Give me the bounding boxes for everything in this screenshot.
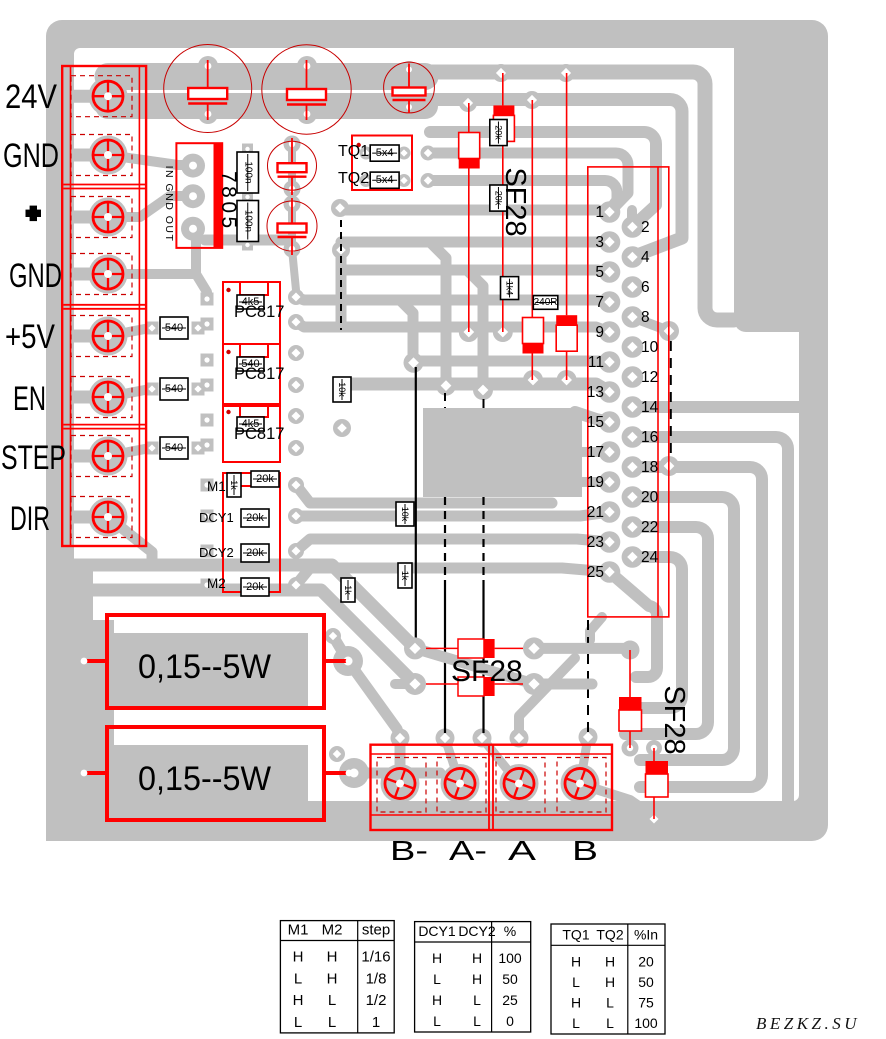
label PC817 #1: [234, 303, 284, 321]
capacitor C1: [164, 45, 252, 133]
capacitor C2 pads: [297, 56, 317, 124]
svg-text:100: 100: [634, 1015, 658, 1031]
wire gnd screw to regulator: [108, 155, 193, 165]
resistor R02 0,15 5W: [81, 727, 353, 820]
svg-text:PC817: PC817: [234, 365, 284, 383]
wire resistor R01 pad to screw B-: [333, 636, 400, 783]
resistor 540 #1: [160, 317, 188, 339]
wire pin24 loop: [630, 557, 682, 708]
wire chip to pin17: [582, 447, 610, 457]
label GND: [3, 137, 59, 175]
jumper wire x445: [444, 393, 446, 733]
svg-text:18: 18: [641, 459, 658, 476]
svg-text:23: 23: [587, 534, 604, 551]
svg-text:1: 1: [372, 1014, 380, 1031]
label B bottom: [572, 835, 598, 866]
svg-text:H: H: [571, 953, 581, 969]
label TQ2: [338, 170, 369, 187]
capacitor C3 pads: [401, 61, 418, 116]
svg-text:SF28: SF28: [451, 655, 523, 688]
resistor 20k DCY1: [241, 509, 269, 527]
capacitor C6 100n: [237, 152, 259, 193]
ground plane frame: [46, 20, 828, 841]
svg-text:H: H: [432, 992, 442, 1008]
diode D1 SF28: [459, 103, 480, 332]
wire pin18b to jumper pad: [632, 466, 669, 467]
svg-text:H: H: [293, 992, 304, 1009]
svg-text:step: step: [362, 922, 390, 939]
wire run under chip y516 to pin21: [296, 512, 610, 516]
svg-text:DCY2: DCY2: [458, 923, 496, 939]
resistor 240R: [533, 296, 558, 310]
wire plus screw to regulator mid: [108, 196, 193, 217]
svg-text:GND: GND: [3, 137, 59, 175]
wire chip to pin15: [575, 412, 610, 422]
wire cap C4 leads: [288, 144, 296, 189]
svg-text:TQ1: TQ1: [338, 143, 369, 160]
capacitor C7 100n: [237, 201, 259, 242]
label PC817 #3: [234, 425, 284, 443]
resistor 20k b: [490, 185, 507, 211]
table M1 M2 step: [280, 921, 394, 1033]
label B- bottom: [390, 835, 428, 866]
wire pin2 stub up: [627, 210, 637, 227]
svg-text:DCY2: DCY2: [199, 545, 234, 560]
wire run R2 y99: [420, 100, 682, 258]
table DCY: [415, 922, 531, 1032]
svg-text:IN GND OUT: IN GND OUT: [163, 166, 175, 243]
op-amp optocoupler U5 PC817: [223, 404, 280, 462]
wire run under chip y503: [296, 485, 552, 503]
jumper TQ pads: [360, 146, 436, 189]
wire inner loop pin25 to D6: [610, 572, 658, 677]
resistor R1-R3 pads: [146, 322, 205, 455]
svg-text:100: 100: [498, 950, 522, 966]
diode pair pads: [404, 637, 545, 695]
svg-text:9: 9: [595, 324, 604, 341]
capacitor C1 pads: [198, 56, 218, 124]
svg-text:75: 75: [638, 994, 654, 1010]
label TQ1: [338, 143, 369, 160]
svg-text:H: H: [472, 971, 482, 987]
svg-text:L: L: [328, 1014, 336, 1031]
wire cap C2 leads: [303, 66, 311, 114]
jumper block TQ1 TQ2: [352, 136, 412, 191]
terminal block X2: [371, 745, 613, 830]
resistor 20k DCY2: [241, 544, 269, 562]
capacitor C4 pads: [284, 136, 301, 198]
wire jumper pad to screw A: [482, 738, 519, 784]
header block M1/DCY/M2: [223, 473, 280, 592]
wire pin14 to plane: [632, 401, 799, 413]
wire run R4 y180 corner: [428, 181, 617, 211]
wire chip to pin19: [582, 477, 610, 487]
wire cap C1 leads: [204, 66, 212, 114]
svg-text:H: H: [293, 949, 304, 966]
svg-text:H: H: [571, 994, 581, 1010]
svg-text:21: 21: [587, 504, 604, 521]
svg-text:H: H: [605, 953, 615, 969]
svg-text:L: L: [606, 994, 614, 1010]
wire run to pin1: [340, 210, 610, 212]
terminal screw A: [496, 758, 545, 813]
label EN: [13, 380, 46, 418]
connector J2 outline: [588, 167, 669, 617]
capacitor C5 pads: [284, 196, 301, 258]
svg-text:17: 17: [587, 444, 604, 461]
svg-text:M1: M1: [207, 479, 226, 494]
regulator U1 pads: [181, 154, 205, 241]
label PC817 #2: [234, 365, 284, 383]
svg-text:PC817: PC817: [234, 303, 284, 321]
svg-text:L: L: [328, 992, 336, 1009]
wire run to pin5: [341, 242, 610, 385]
wire DIR screw down to bottom bundle: [108, 517, 152, 565]
wire vertical x341: [336, 250, 347, 324]
svg-text:7: 7: [595, 294, 604, 311]
diode D5 D6 pads: [621, 641, 663, 828]
terminal screw 24V: [71, 76, 132, 117]
svg-text:16: 16: [641, 429, 658, 446]
terminal screw GND: [71, 135, 132, 176]
IC driver copper pad area U2: [423, 408, 582, 497]
svg-text:DCY1: DCY1: [418, 923, 456, 939]
svg-text:5: 5: [595, 264, 604, 281]
wire run to pin3: [341, 237, 610, 248]
jumper wire x341: [340, 220, 342, 330]
wire pin16 loop: [632, 437, 788, 801]
terminal screw STEP: [71, 436, 132, 477]
ground pour bottom left: [46, 560, 114, 841]
wire cap C5 leads: [292, 204, 296, 290]
wire screws to band stubs: [66, 96, 108, 517]
svg-text:22: 22: [641, 519, 658, 536]
connector J2 pin numbers: [587, 204, 659, 581]
jumper wire x588: [587, 620, 589, 733]
svg-text:L: L: [572, 974, 580, 990]
capacitor C4: [268, 138, 317, 195]
wire run R3 y153 corner: [428, 153, 628, 212]
wire +5V screw to R1: [108, 328, 150, 336]
jumper wire x483: [483, 399, 485, 733]
diode D5 SF28: [426, 639, 523, 658]
svg-text:DIR: DIR: [10, 500, 50, 538]
resistor 540 #2: [160, 378, 188, 400]
svg-text:1: 1: [595, 204, 604, 221]
svg-text:14: 14: [641, 399, 659, 416]
svg-text:%In: %In: [634, 926, 658, 942]
svg-text:%: %: [504, 923, 516, 939]
op-amp optocoupler U4 PC817: [223, 344, 280, 406]
resistor 20k M1: [251, 471, 279, 487]
svg-text:DCY1: DCY1: [199, 510, 234, 525]
terminal screw GND: [71, 254, 132, 295]
resistor 20k M2: [241, 578, 269, 596]
svg-text:L: L: [433, 1013, 441, 1029]
M block pads: [201, 477, 305, 593]
diode D4 SF28: [556, 73, 577, 380]
terminal screw A-: [437, 758, 486, 813]
capacitor C5: [267, 198, 317, 255]
wire 24V rail top: [108, 77, 425, 107]
resistor 4k5 in U5: [237, 417, 264, 431]
diode D3 SF28: [523, 100, 544, 380]
wire run under chip y568 to pin25: [296, 568, 610, 585]
svg-text:+5V: +5V: [5, 318, 55, 356]
svg-text:L: L: [606, 1015, 614, 1031]
label SF28 bottom right: [658, 685, 690, 754]
jumper TQ1: [370, 145, 399, 161]
resistor 1k4: [501, 277, 519, 300]
label A bottom: [508, 835, 536, 866]
label M1: [207, 479, 226, 494]
svg-text:L: L: [294, 1014, 302, 1031]
resistor box a: [333, 377, 351, 402]
wire pin8 to jumper pad: [632, 317, 669, 331]
op-amp optocoupler U3 PC817: [223, 282, 280, 344]
resistor box d: [398, 563, 412, 588]
label DIR: [10, 500, 50, 538]
node x341 pads: [331, 199, 351, 437]
label 24V: [5, 78, 57, 116]
svg-text:A: A: [508, 835, 536, 866]
wire S curve pin area to screw A pad: [519, 658, 575, 738]
svg-text:3: 3: [595, 234, 604, 251]
diode D2 SF28: [493, 73, 514, 332]
wire run under chip y539 to pin23: [296, 539, 610, 551]
svg-text:4: 4: [641, 249, 650, 266]
diode D6 SF28: [619, 650, 642, 748]
svg-text:TQ1: TQ1: [562, 926, 589, 942]
svg-text:10: 10: [641, 339, 659, 356]
wire run to pin13: [345, 384, 610, 392]
svg-text:B: B: [572, 835, 598, 866]
resistor 4k5 in U3: [237, 295, 264, 309]
regulator U1 7805: [163, 143, 240, 248]
svg-text:50: 50: [638, 974, 654, 990]
resistor R01 0,15 5W: [81, 615, 353, 708]
svg-text:50: 50: [502, 971, 518, 987]
svg-text:TQ2: TQ2: [596, 926, 623, 942]
svg-text:L: L: [294, 970, 302, 987]
svg-text:L: L: [572, 1015, 580, 1031]
svg-text:H: H: [327, 970, 338, 987]
label DCY2: [199, 545, 234, 560]
svg-text:M2: M2: [207, 576, 226, 591]
svg-text:TQ2: TQ2: [338, 170, 369, 187]
svg-text:L: L: [473, 1013, 481, 1029]
svg-text:20: 20: [641, 489, 659, 506]
label SF28 top: [499, 167, 531, 236]
terminal block X1: [62, 66, 146, 546]
wire run y132: [430, 132, 656, 227]
wire run to pin7: [296, 270, 610, 390]
optocoupler U3 pads: [201, 289, 305, 331]
svg-text:1/2: 1/2: [366, 992, 387, 1009]
wire EN screw to R2: [108, 389, 150, 397]
svg-text:0: 0: [506, 1013, 514, 1029]
resistor 20k a: [490, 120, 507, 146]
svg-text:EN: EN: [13, 380, 46, 418]
wire jumper pad to screw A-: [445, 738, 460, 784]
svg-text:M2: M2: [322, 922, 343, 939]
wire resistor R02 pad to A-: [354, 768, 440, 779]
label +5V: [5, 318, 55, 356]
svg-text:15: 15: [587, 414, 604, 431]
svg-text:24: 24: [641, 549, 659, 566]
svg-text:SF28: SF28: [499, 167, 531, 236]
svg-text:L: L: [473, 992, 481, 1008]
wire cap C3 leads: [405, 69, 413, 107]
resistor 1k M1: [227, 473, 241, 497]
svg-text:STEP: STEP: [1, 439, 66, 477]
wire pin18 loop: [632, 467, 762, 787]
ground pour right band: [734, 48, 799, 332]
resistor box c: [341, 578, 355, 602]
wire left bottom bundle: [60, 565, 415, 684]
label +: [26, 206, 42, 222]
table TQ: [551, 924, 665, 1034]
svg-text:1/16: 1/16: [361, 949, 390, 966]
svg-text:GND: GND: [9, 257, 62, 295]
svg-text:H: H: [472, 950, 482, 966]
jumper TQ2: [370, 172, 399, 188]
connector J2 pins: [599, 201, 644, 583]
svg-text:BEZKZ.SU: BEZKZ.SU: [756, 1014, 860, 1033]
watermark BEZKZ.SU: [756, 1014, 860, 1033]
bottom row pads: [391, 728, 598, 748]
jumper wire x669: [670, 341, 672, 456]
svg-text:A-: A-: [449, 835, 487, 866]
svg-text:0,15--5W: 0,15--5W: [138, 648, 271, 686]
wire run R1 y72: [420, 72, 734, 320]
svg-text:B-: B-: [390, 835, 428, 866]
terminal screw +: [71, 197, 132, 238]
terminal screw B-: [377, 758, 426, 813]
svg-text:PC817: PC817: [234, 425, 284, 443]
wire pin20 loop: [632, 497, 734, 760]
resistor box b: [396, 502, 414, 526]
svg-text:11: 11: [588, 354, 604, 371]
diode pads mid: [459, 64, 575, 112]
jumper wire pads right: [659, 321, 679, 476]
terminal screw EN: [71, 377, 132, 418]
power resistor right pads: [325, 628, 369, 788]
svg-text:L: L: [433, 971, 441, 987]
terminal screw +5V: [71, 316, 132, 357]
terminal screw B: [557, 758, 606, 813]
wire under diode pair: [395, 648, 630, 684]
capacitor C3: [384, 62, 435, 113]
wire run to pin11: [413, 361, 610, 362]
wire gnd2 screw to regulator out: [108, 228, 207, 299]
jumper wire x415: [415, 367, 417, 641]
label GND: [9, 257, 62, 295]
svg-text:8: 8: [641, 309, 650, 326]
svg-text:20: 20: [638, 953, 654, 969]
wire screw B to diode pad: [580, 784, 652, 815]
svg-text:H: H: [432, 950, 442, 966]
svg-text:13: 13: [587, 384, 604, 401]
svg-text:0,15--5W: 0,15--5W: [138, 760, 271, 798]
svg-text:M1: M1: [288, 922, 309, 939]
wire regulator right: [205, 235, 288, 246]
optocoupler U5 pads: [201, 408, 305, 456]
label A- bottom: [449, 835, 487, 866]
terminal screw DIR: [71, 497, 132, 538]
capacitor C2: [262, 45, 351, 134]
svg-text:H: H: [327, 949, 338, 966]
svg-text:SF28: SF28: [658, 685, 690, 754]
svg-text:6: 6: [641, 279, 650, 296]
svg-text:19: 19: [587, 474, 604, 491]
svg-text:2: 2: [641, 219, 650, 236]
svg-text:25: 25: [502, 992, 518, 1008]
svg-text:25: 25: [587, 564, 604, 581]
resistor 540 in U4: [237, 357, 264, 371]
capacitor C6 C7 pads: [242, 144, 253, 251]
wire run to pin9: [296, 300, 610, 361]
resistor 540 #3: [160, 437, 188, 459]
svg-text:12: 12: [641, 369, 658, 386]
label SF28 bottom center: [451, 655, 523, 688]
label M2: [207, 576, 226, 591]
wire connector bottom stub: [590, 617, 602, 640]
svg-text:1/8: 1/8: [366, 970, 387, 987]
optocoupler U4 pads: [201, 345, 305, 393]
diode D8 SF28: [426, 677, 523, 696]
label DCY1: [199, 510, 234, 525]
label STEP: [1, 439, 66, 477]
diode D7 SF28: [646, 748, 669, 819]
wire STEP screw to R3: [108, 448, 150, 456]
svg-text:24V: 24V: [5, 78, 57, 116]
wire pad to screw B: [580, 737, 588, 784]
wire pin22 loop: [625, 527, 708, 734]
svg-text:H: H: [605, 974, 615, 990]
